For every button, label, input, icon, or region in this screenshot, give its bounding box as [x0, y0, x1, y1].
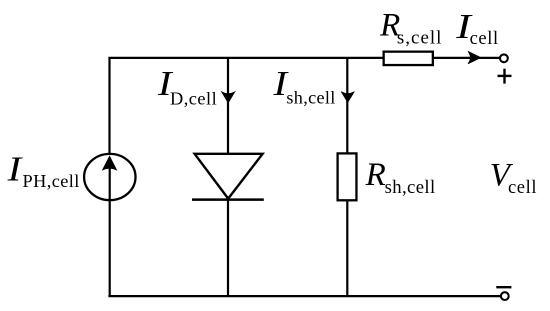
svg-text:PH,cell: PH,cell: [23, 171, 80, 191]
svg-text:cell: cell: [508, 178, 537, 198]
svg-text:s,cell: s,cell: [397, 28, 443, 49]
svg-text:R: R: [365, 157, 386, 193]
svg-text:sh,cell: sh,cell: [286, 88, 335, 108]
svg-text:sh,cell: sh,cell: [385, 177, 436, 198]
svg-text:D,cell: D,cell: [170, 88, 217, 108]
svg-text:cell: cell: [470, 29, 499, 49]
